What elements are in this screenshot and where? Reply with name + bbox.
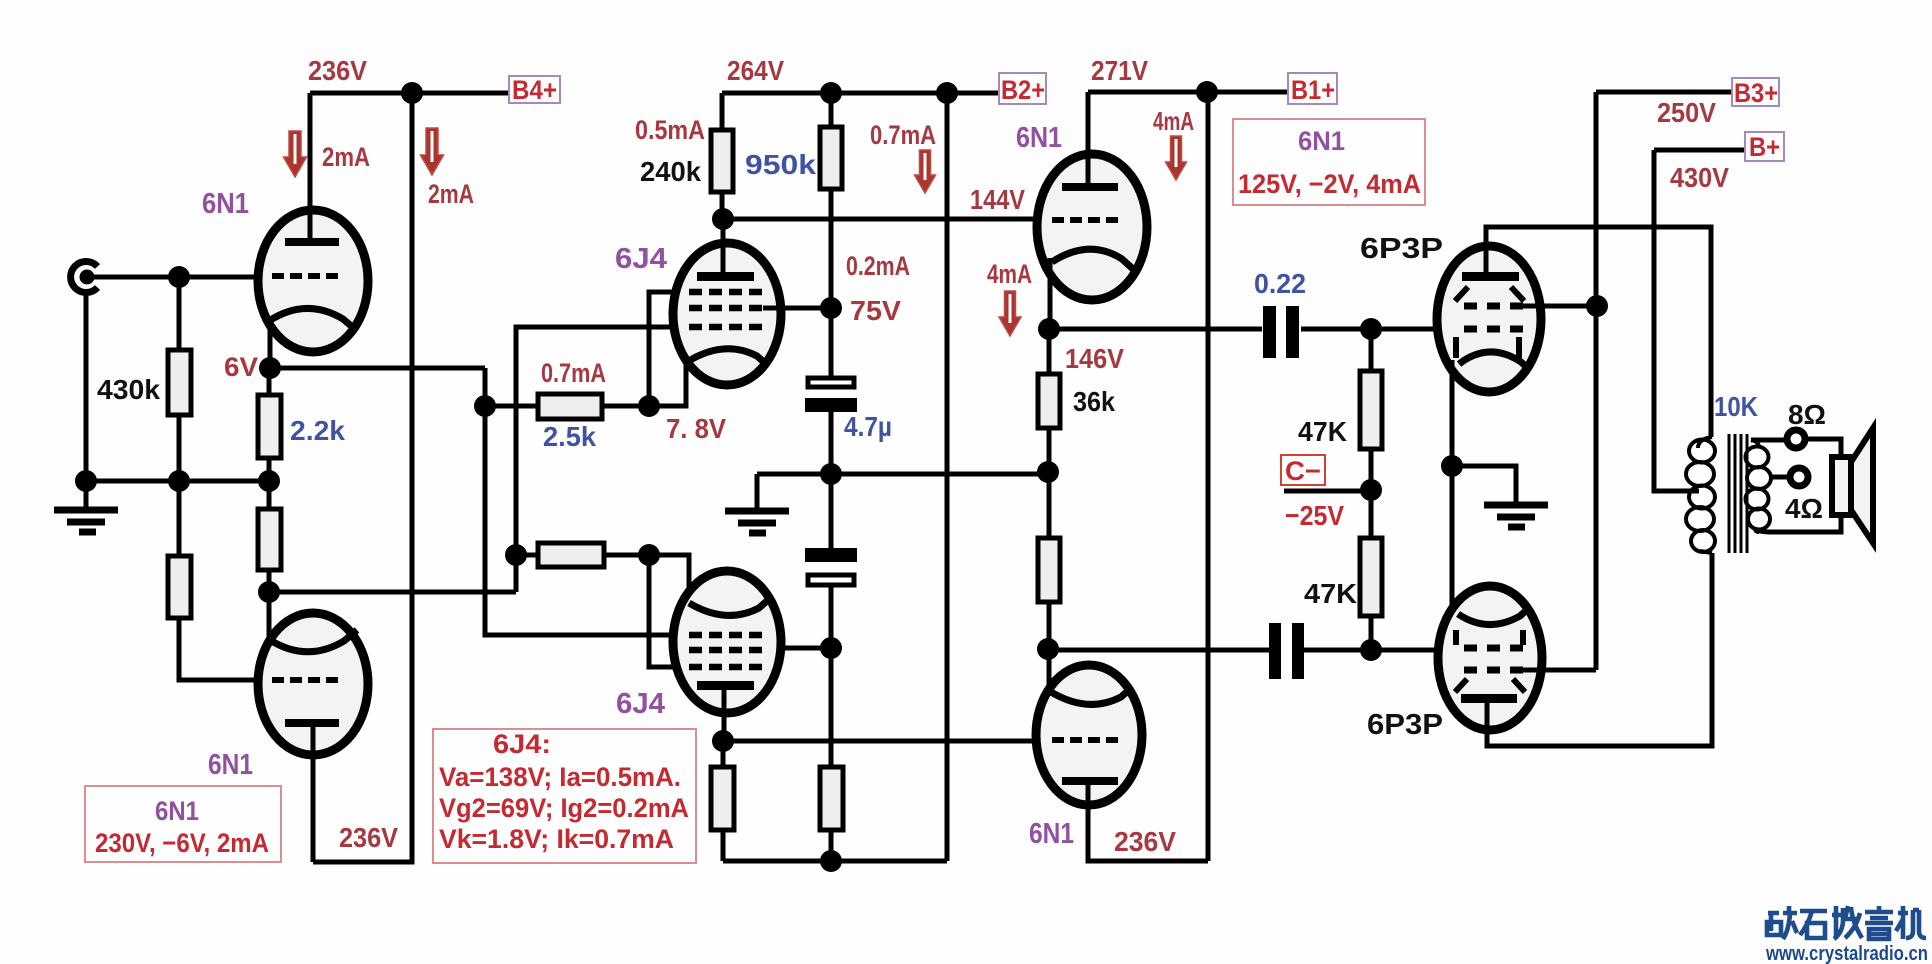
svg-text:6J4: 6J4 (616, 688, 665, 720)
resistor R mid179 (168, 481, 262, 680)
wire x947 vertical (945, 93, 950, 861)
tube V3 6J4 upper (673, 243, 781, 385)
wire cathode V3 lead (649, 360, 686, 406)
svg-text:2mA: 2mA (322, 142, 370, 172)
wire plate V8 to transformer (1487, 553, 1712, 746)
node dot plate V4 (712, 730, 734, 752)
svg-text:6N1: 6N1 (1298, 126, 1345, 156)
svg-text:B4+: B4+ (512, 75, 557, 105)
wire cathode V5 down (1048, 258, 1053, 329)
node dot g2 V4 (820, 637, 842, 659)
node dot gnd row (820, 463, 842, 485)
wire screen V8 (1520, 668, 1596, 673)
wire B+ to center tap (1654, 150, 1699, 491)
input jack J1 (71, 262, 98, 293)
box B1+ (1288, 73, 1337, 105)
svg-text:36k: 36k (1073, 386, 1115, 417)
svg-text:B+: B+ (1749, 132, 1780, 162)
box B2+ (999, 73, 1046, 105)
tube V7 6P3P upper (1437, 246, 1541, 392)
node dot x947 top (936, 82, 958, 104)
svg-text:430k: 430k (97, 374, 160, 405)
wire 36k bottom (1047, 428, 1052, 472)
svg-text:75V: 75V (850, 295, 901, 326)
wire jack shell down (84, 294, 89, 510)
box B+ (1745, 132, 1784, 162)
svg-text:236V: 236V (339, 822, 398, 853)
wire coupling top row (1049, 327, 1466, 332)
transformer T1 primary (1686, 437, 1715, 553)
wire cathode feedback row (269, 590, 516, 595)
capacitor C2 (805, 548, 857, 585)
transformer core (1729, 434, 1747, 553)
node dot C- (1360, 479, 1382, 501)
wire secondary bottom (1755, 516, 1841, 532)
wire 240k stub (720, 192, 725, 219)
tube V1 6N1 upper (258, 210, 368, 352)
terminal 8ohm (1787, 430, 1805, 448)
svg-text:47K: 47K (1304, 578, 1357, 609)
capacitor 4.7u (805, 378, 857, 412)
wire cathode V2 lead (267, 592, 272, 640)
resistor R 36k (1038, 374, 1060, 428)
capacitor C lower coupling (1269, 623, 1304, 679)
wire 6V line (270, 366, 485, 371)
wire C- link (1284, 489, 1371, 494)
node dot cathode gnd (1441, 455, 1463, 477)
arrow 4mA top (1166, 136, 1187, 180)
resistor RA bottom left (711, 741, 734, 861)
ground GND1 (54, 510, 118, 532)
node dot 75V (820, 297, 842, 319)
wire 2.2k bottom (267, 458, 272, 481)
svg-text:6N1: 6N1 (155, 796, 199, 826)
wire plate V3 up (721, 219, 726, 272)
node dot grid top 6P3P (1360, 318, 1382, 340)
ground GND2 (725, 474, 789, 533)
svg-text:0.7mA: 0.7mA (870, 120, 936, 150)
resistor R mid269 (258, 481, 281, 592)
node dot screen V7 (1586, 295, 1608, 317)
svg-text:8Ω: 8Ω (1788, 399, 1826, 430)
svg-text:7. 8V: 7. 8V (666, 413, 726, 444)
wire x1208 vertical (1206, 92, 1211, 861)
svg-text:Vk=1.8V; Ik=0.7mA: Vk=1.8V; Ik=0.7mA (439, 824, 674, 854)
node dot cathode V5 (1038, 318, 1060, 340)
svg-text:B3+: B3+ (1734, 78, 1778, 108)
svg-text:−25V: −25V (1285, 500, 1344, 531)
node dot bottom (820, 850, 842, 872)
node input dot (168, 266, 190, 288)
transformer secondary (1746, 440, 1772, 532)
svg-text:6N1: 6N1 (208, 749, 253, 781)
resistor R 240k (711, 130, 733, 192)
wire screen V7 (1523, 304, 1597, 309)
wire plate V4 down (722, 690, 727, 741)
wire plate V5 up (1086, 92, 1091, 187)
wire B4+ rail (310, 91, 509, 96)
wire 75V to cap (829, 308, 834, 378)
svg-text:6N1: 6N1 (1029, 818, 1074, 850)
resistor R 47K lower (1360, 490, 1382, 650)
svg-text:264V: 264V (727, 55, 784, 86)
infobox V2 operating point (85, 786, 281, 862)
svg-text:0.22: 0.22 (1254, 268, 1306, 299)
svg-text:B1+: B1+ (1291, 75, 1335, 105)
arrow 2mA #1 (284, 131, 307, 177)
ground GND3 (1484, 505, 1548, 527)
tube V6 6N1 lower right (1036, 665, 1142, 805)
node dot mid right (1037, 461, 1059, 483)
wire plate V6 down (1088, 785, 1208, 861)
node dot 2.5k#2 left (505, 544, 527, 566)
wire plate V2 down (311, 727, 316, 862)
svg-text:430V: 430V (1670, 162, 1729, 193)
svg-text:4mA: 4mA (987, 259, 1032, 289)
terminal 4ohm (1790, 468, 1808, 486)
wire 36k top (1047, 329, 1052, 374)
svg-text:2mA: 2mA (428, 179, 474, 209)
wire main vertical x410 (313, 93, 412, 862)
svg-text:2.2k: 2.2k (290, 415, 345, 446)
resistor R 950k (820, 127, 842, 189)
node 6V dot (259, 357, 281, 379)
resistor R 2.5k#2 (516, 543, 649, 567)
node dot cathode V3 (638, 395, 660, 417)
wire B3+ rail (1596, 90, 1732, 95)
wire B+ rail (1654, 148, 1745, 153)
infobox 6N1 operating point (1233, 119, 1425, 205)
resistor R 2.5k#1 (485, 394, 649, 419)
box C- (1281, 455, 1325, 486)
svg-text:240k: 240k (640, 156, 701, 187)
svg-text:236V: 236V (308, 55, 367, 86)
svg-text:10K: 10K (1714, 391, 1758, 422)
box B3+ (1732, 78, 1779, 108)
svg-text:6N1: 6N1 (202, 188, 249, 220)
wire g3 V4 tie (649, 555, 695, 667)
wire B2+ rail (722, 91, 999, 96)
svg-text:4Ω: 4Ω (1785, 493, 1823, 524)
node dot 2.5k#1 left (474, 395, 496, 417)
resistor R 430k (168, 350, 191, 415)
tube V2 6N1 lower (258, 613, 368, 755)
svg-text:C−: C− (1285, 456, 1321, 486)
svg-text:0.2mA: 0.2mA (846, 251, 910, 281)
speaker LS1 (1832, 428, 1873, 543)
wire cathodes 6P3P (1450, 360, 1455, 612)
wire gnd tap (1452, 466, 1516, 503)
wire g2 V3 (763, 306, 831, 311)
svg-text:125V, −2V, 4mA: 125V, −2V, 4mA (1238, 169, 1421, 199)
wire plate V1 up (308, 93, 313, 238)
resistor R 2.2k (258, 395, 281, 458)
svg-text:www.crystalradio.cn: www.crystalradio.cn (1765, 943, 1928, 964)
svg-text:6J4:: 6J4: (493, 729, 551, 759)
svg-text:6N1: 6N1 (1016, 122, 1062, 154)
svg-text:146V: 146V (1065, 343, 1124, 374)
wire cap2 to g2 node (829, 587, 834, 648)
svg-text:236V: 236V (1114, 826, 1176, 857)
wire 144V line to V5 grid (723, 217, 1046, 222)
wire plate V7 to transformer (1486, 227, 1711, 437)
wire cap to ground row (829, 412, 834, 474)
svg-text:47K: 47K (1298, 416, 1347, 447)
resistor R 47K upper (1360, 329, 1382, 490)
svg-text:230V, −6V, 2mA: 230V, −6V, 2mA (95, 828, 269, 858)
wire ground row mid (757, 472, 1048, 477)
wire coupling bottom row (1048, 648, 1466, 653)
node dot cathode V4 (638, 544, 660, 566)
infobox 6J4 data (433, 729, 696, 863)
wire cap2 top (829, 474, 834, 548)
svg-text:250V: 250V (1657, 97, 1716, 128)
wire 240k top (720, 93, 725, 130)
arrow 0.7mA (915, 150, 936, 193)
svg-text:B2+: B2+ (1001, 75, 1045, 105)
wire cathode V4 lead (649, 555, 689, 605)
svg-text:4mA: 4mA (1153, 106, 1194, 136)
resistor R lower right col (1038, 472, 1060, 649)
svg-text:Vg2=69V; Ig2=0.2mA: Vg2=69V; Ig2=0.2mA (439, 793, 689, 823)
wire ground row (86, 479, 269, 484)
svg-text:0.5mA: 0.5mA (635, 115, 705, 145)
svg-text:6P3P: 6P3P (1367, 709, 1443, 741)
wire x831 down (829, 648, 834, 767)
resistor RB bottom right (820, 767, 843, 861)
svg-text:6V: 6V (224, 352, 258, 382)
svg-text:4.7µ: 4.7µ (844, 411, 892, 442)
watermark logo glyphs (1767, 906, 1926, 939)
capacitor 0.22 top (1263, 306, 1299, 358)
wire 430k top (177, 277, 182, 350)
tube V5 6N1 upper right (1037, 154, 1147, 300)
svg-text:144V: 144V (970, 184, 1025, 215)
wire 950k to 75V node (829, 189, 834, 308)
wire B1+ rail (1088, 90, 1288, 95)
wire grid V3 long (516, 327, 693, 592)
node dot grid lower 6P3P (1360, 639, 1382, 661)
svg-text:2.5k: 2.5k (543, 421, 596, 452)
node dot 950k top (820, 82, 842, 104)
svg-text:0.7mA: 0.7mA (541, 358, 606, 388)
wire cathode V6 lead (1047, 649, 1052, 694)
wire y741 to V6 grid (723, 739, 1037, 744)
node dot 144V divider (712, 208, 734, 230)
wire 8ohm to speaker (1806, 439, 1841, 458)
node dot cathode V6 (1037, 638, 1059, 660)
wire secondary tap (1771, 475, 1789, 480)
wire g2 V4 (765, 646, 831, 651)
svg-text:6P3P: 6P3P (1360, 233, 1443, 265)
tube V8 6P3P lower (1438, 586, 1542, 730)
arrow 2mA #2 (421, 128, 444, 175)
node dot B1 (1196, 81, 1218, 103)
wire 2.2k top stub (267, 368, 272, 395)
svg-text:271V: 271V (1091, 55, 1148, 86)
node cathode V2 dot (258, 581, 280, 603)
wire 430k bottom (177, 415, 182, 481)
node dots ground row (75, 470, 97, 492)
wire input to grid V1 (93, 275, 262, 280)
wire g3 V3 tie (649, 292, 692, 406)
svg-text:950k: 950k (745, 149, 816, 180)
node B4 dot (401, 82, 423, 104)
tube V4 6J4 lower (673, 571, 781, 713)
svg-text:6J4: 6J4 (615, 243, 667, 275)
wire 6V to grid V4 drop (485, 368, 700, 635)
arrow 4mA mid (999, 291, 1021, 336)
wire bottom row mid (723, 859, 947, 864)
svg-text:Va=138V; Ia=0.5mA.: Va=138V; Ia=0.5mA. (439, 762, 681, 792)
wire cathode V1 (268, 318, 273, 368)
wire 950k top stub (829, 93, 834, 127)
box B4+ (509, 75, 560, 105)
wire B3 vertical (1594, 92, 1599, 670)
wire secondary top (1751, 438, 1786, 443)
